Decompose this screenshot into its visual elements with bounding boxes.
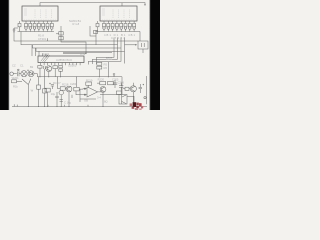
capacitor C205 [113, 80, 117, 88]
wire stub into U203 top b [35, 48, 37, 56]
capacitor C209 [51, 85, 54, 89]
svg-text:GB: GB [84, 98, 88, 102]
stamp red watermark [130, 102, 144, 110]
resistor R223 [116, 91, 121, 94]
wire bus B2 [21, 32, 118, 65]
transistor V203 [100, 87, 106, 93]
svg-text:W: W [31, 89, 34, 93]
wire R217 down [47, 92, 49, 107]
LED HL8 [50, 21, 53, 32]
arrowhead into U202 [144, 4, 146, 6]
resistor R210 [12, 80, 17, 83]
svg-text:R1k: R1k [13, 84, 18, 88]
wire crystal bottom stub [142, 49, 144, 53]
svg-text:IC201: IC201 [42, 52, 50, 56]
crystal B201 [138, 41, 148, 49]
capacitor C201 [44, 66, 46, 77]
svg-text:B202: B202 [106, 57, 113, 61]
wire crystal left [125, 44, 137, 46]
resistor R204 [59, 69, 63, 71]
op-amp N201 [87, 87, 98, 97]
wire pair above U203 [63, 52, 112, 53]
LED HL16 [128, 21, 131, 32]
wire mid link [61, 26, 86, 53]
wire R210 out [17, 80, 23, 82]
svg-text:G: G [113, 73, 115, 77]
svg-text:R6: R6 [104, 66, 108, 70]
wire output vertical [146, 76, 148, 104]
resistor R217 [45, 88, 50, 92]
IC U201 display block [22, 6, 58, 21]
resistor R221 [108, 81, 114, 84]
U203 pins bottom [41, 63, 81, 66]
LED HL7 [46, 21, 49, 32]
capacitor C207 [139, 84, 142, 93]
svg-text:LM8560 BCD: LM8560 BCD [56, 58, 72, 62]
IC U202 display block [100, 6, 137, 21]
junction dot mid link [85, 53, 86, 54]
ground left of U201 [13, 28, 16, 32]
wire to opamp low input [72, 89, 96, 102]
LED HL2 [25, 21, 28, 32]
svg-text:C1: C1 [20, 64, 24, 68]
wire rail drop to speaker [121, 77, 123, 95]
svg-text:C206: C206 [118, 80, 125, 84]
svg-text:CD201: CD201 [68, 64, 77, 68]
plus mark [27, 70, 28, 71]
svg-text:R218: R218 [62, 83, 69, 87]
wire bus B1 [14, 28, 138, 64]
right black scan bar [150, 0, 160, 110]
paper background [0, 0, 160, 110]
svg-text:3-4: 3-4 [97, 96, 101, 100]
input terminal circles [84, 88, 85, 89]
wire top clock net [40, 3, 145, 6]
svg-text:R 1-8: R 1-8 [73, 22, 80, 26]
speaker BL201 [119, 95, 127, 104]
svg-text:C204: C204 [70, 82, 77, 86]
svg-text:8Ω: 8Ω [104, 100, 108, 104]
potentiometer RP201 [22, 79, 31, 85]
resistor R218 [60, 87, 65, 90]
microphone B202 [21, 71, 27, 77]
wire jack [13, 73, 16, 75]
resistor R205 [97, 62, 102, 65]
LED HL14 [120, 21, 123, 32]
resistor R203 [59, 66, 63, 68]
LED HL4 [33, 21, 36, 32]
LED HL10 [103, 21, 106, 32]
resistor R220 [100, 81, 106, 84]
svg-text:CZ: CZ [12, 64, 16, 68]
small device right of U202 [94, 31, 98, 34]
svg-text:R4 C7: R4 C7 [53, 81, 61, 85]
LED HL13 [115, 21, 118, 32]
IC U203 main clock chip [38, 56, 84, 63]
label texts faint [12, 19, 136, 105]
transistor V206 [59, 90, 63, 94]
resistor R208 [59, 32, 63, 35]
wire sensor out [34, 74, 37, 77]
resistor V204 bias [125, 87, 129, 90]
wire stub into U203 top c [38, 51, 40, 56]
LED HL11 [107, 21, 110, 32]
ground tick mid [113, 73, 115, 77]
LED HL17 [133, 21, 136, 32]
transistor V202 [66, 86, 72, 92]
svg-text:R220: R220 [98, 78, 105, 82]
node bus right [96, 31, 141, 33]
wire cluster right of U202 [90, 26, 96, 45]
LED HL3 [29, 21, 32, 32]
net rail bottom [12, 106, 147, 108]
LED HL12 [111, 21, 114, 32]
capacitor C202 [18, 71, 21, 76]
svg-text:W201: W201 [12, 76, 20, 80]
resistor R201 [38, 66, 42, 69]
wire crystal drop [139, 32, 141, 42]
wire branch to U202 top [121, 3, 123, 6]
diode circle V210 [28, 71, 34, 77]
plus mark C209 [49, 83, 50, 84]
junction ticks rail bottom [48, 105, 88, 107]
wire speaker right [127, 96, 134, 106]
svg-text:CT201: CT201 [38, 37, 47, 41]
U201 internal pin marks [24, 9, 56, 19]
jack X201 [10, 72, 13, 75]
lamp HL9 [96, 21, 99, 32]
resistor R216 [44, 77, 46, 107]
resistor R206 [97, 66, 102, 69]
U201 internal digit dividers [35, 10, 52, 19]
node bus left [18, 31, 55, 33]
svg-text:R5: R5 [104, 62, 108, 66]
wire stub into U203 top d [42, 53, 44, 56]
wire opamp chain to speaker [100, 94, 119, 96]
resistor R222 [74, 87, 79, 91]
rail start stubs [14, 104, 17, 106]
net rail mid [37, 76, 122, 78]
resistor R219 [86, 82, 92, 85]
lamp HL1 [18, 21, 21, 32]
transistor V205 [130, 86, 136, 92]
svg-text:B2: B2 [30, 65, 34, 69]
terminal circle [144, 97, 146, 99]
svg-text:C 10μ: C 10μ [64, 101, 72, 105]
junction dots rail mid [39, 76, 108, 77]
wire right drop [107, 62, 109, 77]
capacitor C211 [60, 100, 63, 101]
capacitor C210 [55, 92, 58, 107]
wire opamp out [98, 91, 103, 93]
resistor R202 [53, 66, 58, 69]
left black scan bar [0, 0, 8, 110]
wire bus B3 [33, 38, 122, 65]
wire tick R208 [56, 33, 59, 35]
U202 internal pin marks [102, 9, 135, 19]
LED HL5 [37, 21, 40, 32]
arrowhead crystal [135, 44, 137, 46]
wire bus B4 [36, 38, 125, 64]
polarity circle C202 [18, 69, 20, 71]
plus mark C207 [143, 84, 144, 85]
LED HL6 [42, 21, 45, 32]
transistor V201 [46, 66, 52, 72]
U202 internal digit dividers [113, 10, 130, 19]
svg-text:4.19: 4.19 [80, 52, 86, 56]
svg-text:R219: R219 [86, 79, 93, 83]
junction dots rail bottom [28, 76, 135, 107]
capacitor C206 [119, 83, 123, 93]
wire ground to LED row [14, 27, 18, 29]
bus ribbon slash [41, 54, 50, 62]
wire stub into U203 top a [31, 45, 33, 56]
svg-text:10μ: 10μ [51, 92, 56, 96]
resistor R215 [38, 77, 40, 107]
resistor R209 [59, 36, 63, 39]
LED HL15 [124, 21, 127, 32]
